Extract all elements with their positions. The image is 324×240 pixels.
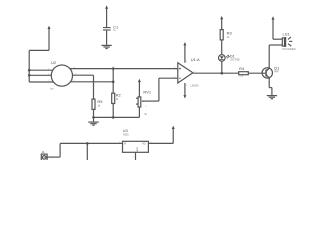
wire bottom rail R5-R2-RV1 — [94, 116, 140, 118]
svg-text:PNP: PNP — [274, 71, 279, 73]
node junction rail/R2 column — [112, 67, 115, 70]
node junction bottom rail — [86, 142, 89, 145]
node junction R2/bottom rail — [112, 116, 115, 119]
svg-text:1u: 1u — [113, 30, 116, 32]
resistor R5 — [92, 99, 103, 118]
connector J1 — [41, 150, 47, 161]
wire LS1 top pin — [273, 38, 282, 40]
wire U2 left pin 2 — [29, 74, 51, 76]
LED D1 — [219, 53, 241, 61]
svg-text:LM358: LM358 — [191, 84, 199, 88]
wire from left power corner — [29, 50, 49, 82]
tick above junction — [112, 66, 114, 68]
power terminal V+ (above op-amp U1) — [183, 42, 186, 63]
svg-text:1k: 1k — [144, 112, 147, 116]
svg-text:LS1: LS1 — [283, 31, 291, 36]
svg-text:1k: 1k — [116, 97, 119, 101]
pin tick D1 cathode — [221, 64, 223, 66]
power terminal VCC (left, above U2) — [48, 26, 51, 51]
wire op-amp output rail — [193, 72, 239, 74]
wire Q1 collector to ground — [269, 78, 272, 96]
op-amp U1:A — [174, 57, 200, 87]
power terminal VCC (above R3) — [220, 16, 223, 30]
svg-text:R3: R3 — [227, 31, 233, 36]
svg-text:LED-RED: LED-RED — [230, 60, 240, 62]
node junction pin4/R2 — [112, 81, 115, 84]
svg-text:7805: 7805 — [123, 133, 129, 137]
pin tick J1 — [50, 156, 52, 158]
potentiometer RV1 — [136, 89, 159, 117]
svg-text:RV1: RV1 — [143, 89, 151, 94]
transistor Q1 — [262, 66, 280, 79]
wire U2 left pin 3 — [29, 81, 53, 83]
pin tick D1 anode — [221, 51, 223, 53]
svg-text:4: 4 — [186, 85, 188, 87]
resistor R2 — [112, 93, 122, 118]
svg-text:R2: R2 — [116, 93, 122, 98]
svg-text:2: 2 — [145, 105, 147, 107]
wire junction drop to bottom edge — [86, 143, 88, 160]
wire rail U2 pin6 to op-amp + input — [70, 68, 178, 70]
wire RV1 wiper to op-amp - input — [159, 78, 178, 101]
wire R4 to Q1 base — [248, 72, 265, 74]
wire U2 pin4 to R2 column — [71, 69, 114, 94]
wire Q1 emitter up to LS1 — [268, 45, 270, 68]
wire LS1 bottom pin — [269, 44, 282, 46]
svg-text:10k: 10k — [239, 74, 244, 78]
svg-text:2: 2 — [133, 157, 135, 159]
svg-text:VI: VI — [124, 142, 127, 145]
svg-text:U3: U3 — [123, 128, 129, 133]
resistor R3 — [220, 30, 232, 55]
node junction U2 pin left mid — [28, 74, 31, 77]
wire U3 VO to power arrow — [148, 129, 173, 144]
node junction U2 pin left top — [28, 69, 31, 72]
svg-text:R4: R4 — [239, 66, 245, 71]
node junction D1/output rail — [221, 72, 224, 75]
svg-text:Q1: Q1 — [274, 66, 280, 71]
wire D1 cathode to output rail — [221, 61, 223, 73]
wire U2 left pin 1 — [29, 69, 53, 71]
svg-text:SOUNDER: SOUNDER — [282, 47, 295, 51]
sounder LS1 — [282, 31, 295, 51]
wire U3 GND pin to bottom edge — [135, 152, 137, 160]
svg-text:GND: GND — [136, 147, 138, 152]
power terminal VCC (above LS1) — [272, 16, 275, 39]
ground (below C1) — [101, 45, 111, 48]
svg-text:8: 8 — [186, 61, 188, 63]
power terminal VCC (U3 output) — [172, 126, 175, 129]
svg-text:U2: U2 — [51, 60, 57, 65]
resistor R4 — [239, 66, 249, 78]
svg-text:U1:A: U1:A — [191, 57, 200, 62]
capacitor C1 — [103, 24, 119, 45]
svg-text:R5: R5 — [97, 99, 103, 104]
wire J1 to bottom rail — [47, 143, 122, 157]
svg-text:MIC: MIC — [50, 89, 54, 91]
microphone U2 — [48, 60, 77, 91]
node junction R5/ground — [92, 116, 95, 119]
svg-text:J1: J1 — [42, 150, 45, 154]
svg-text:C1: C1 — [113, 24, 119, 29]
ground (below Q1) — [267, 96, 277, 99]
ground (below R5) — [88, 117, 98, 125]
power terminal VCC (above C1) — [105, 5, 108, 27]
power terminal V- (below op-amp, arrow down) — [183, 83, 186, 99]
wire U2 pin5 to R5 column — [73, 75, 94, 99]
svg-text:VO: VO — [142, 142, 146, 145]
svg-text:D1: D1 — [230, 53, 236, 58]
power terminal (above RV1) — [138, 79, 141, 97]
voltage regulator U3 — [119, 128, 152, 159]
